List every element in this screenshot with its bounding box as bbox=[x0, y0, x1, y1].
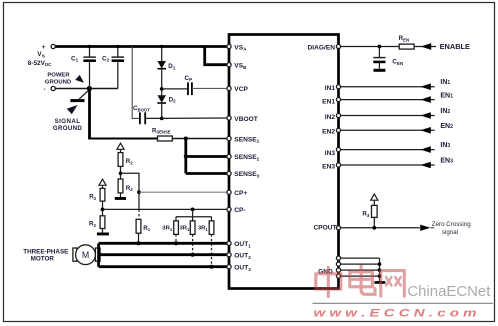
wire OUT3 bbox=[99, 265, 228, 268]
arrow IN2 bbox=[420, 112, 430, 119]
pin CP+ bbox=[227, 190, 231, 194]
svg-text:CP+: CP+ bbox=[234, 190, 247, 197]
wire ground to sense bbox=[88, 89, 91, 139]
svg-text:3R1: 3R1 bbox=[162, 226, 173, 232]
svg-text:M: M bbox=[82, 250, 89, 260]
watermark chinese characters bbox=[316, 266, 405, 296]
svg-text:IN3: IN3 bbox=[325, 150, 336, 157]
svg-text:MOTOR: MOTOR bbox=[31, 256, 55, 263]
pin EN2 bbox=[336, 128, 340, 132]
svg-text:THREE-PHASE: THREE-PHASE bbox=[23, 248, 68, 255]
svg-text:GROUND: GROUND bbox=[53, 125, 83, 132]
arrow IN1 bbox=[420, 83, 430, 90]
resistor R2 left lower bbox=[100, 216, 105, 229]
arrow zero crossing output bbox=[420, 225, 430, 231]
node D1-D2 junction bbox=[160, 87, 164, 91]
svg-text:+: + bbox=[42, 44, 46, 51]
svg-text:IN3: IN3 bbox=[440, 142, 450, 149]
resistor 3R1 a bbox=[174, 221, 179, 235]
svg-text:ChinaECNet: ChinaECNet bbox=[407, 283, 491, 300]
capacitor C2 bbox=[117, 47, 119, 58]
diode D1 bbox=[161, 47, 163, 62]
wire GND bundle bbox=[340, 257, 380, 259]
ground signal-ground bar bbox=[79, 90, 90, 100]
svg-text:EN2: EN2 bbox=[322, 128, 335, 135]
arrow left chain top bbox=[99, 179, 106, 185]
pin OUT3 bbox=[227, 265, 231, 269]
svg-text:CPOUT: CPOUT bbox=[314, 225, 337, 232]
node VS+ terminal bbox=[51, 44, 55, 48]
arrow EN3 bbox=[420, 162, 430, 169]
svg-text:POWER: POWER bbox=[47, 72, 70, 78]
wire CP- bbox=[103, 208, 228, 210]
svg-text:IN2: IN2 bbox=[440, 108, 450, 115]
svg-text:SENSE3: SENSE3 bbox=[234, 171, 259, 178]
pin CPOUT bbox=[336, 226, 340, 230]
wire CP to VCP pin bbox=[192, 87, 228, 89]
svg-text:EN1: EN1 bbox=[440, 92, 453, 99]
svg-text:RSENSE: RSENSE bbox=[152, 129, 171, 135]
svg-text:SENSE2: SENSE2 bbox=[234, 154, 259, 161]
pin VSB bbox=[227, 63, 231, 67]
node power ground junction bbox=[87, 86, 92, 91]
pin IN3 bbox=[336, 148, 340, 152]
wire CPOUT bbox=[340, 227, 420, 229]
pin GND group bbox=[336, 256, 340, 260]
node sense junction bbox=[184, 137, 188, 141]
motor M1 circle bbox=[76, 245, 96, 265]
pin SENSE3 bbox=[227, 171, 231, 175]
node VBOOT junction bbox=[160, 117, 164, 121]
arrow ENABLE input bbox=[421, 43, 432, 50]
watermark divider line bbox=[313, 302, 494, 304]
pin DIAG/EN bbox=[336, 44, 340, 48]
wire IN1 bbox=[340, 86, 435, 88]
resistor RSENSE bbox=[158, 136, 173, 141]
wire IN3 bbox=[340, 149, 435, 151]
resistor R2 lower bbox=[118, 179, 123, 193]
ground CEN bar bbox=[374, 69, 386, 72]
wire OUT2 bbox=[100, 253, 228, 256]
resistor 3R1 c bbox=[209, 221, 214, 235]
resistor 3R1 b bbox=[190, 221, 195, 235]
svg-text:IN2: IN2 bbox=[325, 114, 336, 121]
svg-text:-: - bbox=[44, 86, 46, 93]
svg-text:VBOOT: VBOOT bbox=[234, 116, 257, 123]
capacitor C1 bbox=[89, 47, 91, 58]
resistor R2 left upper bbox=[100, 188, 105, 201]
arrow power ground pointer bbox=[75, 75, 84, 83]
svg-text:3R1: 3R1 bbox=[198, 226, 209, 232]
pin OUT2 bbox=[227, 253, 231, 257]
wire OUT1 bbox=[99, 242, 228, 245]
ground R2 chain bbox=[120, 193, 122, 197]
arrow EN1 bbox=[420, 96, 430, 103]
wire EN3 bbox=[340, 164, 435, 166]
wire IN2 bbox=[340, 115, 435, 117]
pin SENSE2 bbox=[227, 154, 231, 158]
pin VSA bbox=[227, 44, 231, 48]
wire 3R1 dashed drops bbox=[175, 234, 177, 243]
capacitor CEN bbox=[378, 47, 380, 58]
motor brushes bbox=[73, 248, 77, 261]
wire EN1 bbox=[340, 99, 435, 101]
wire CBOOT to VBOOT node bbox=[145, 117, 162, 119]
wire top supply rail bbox=[55, 45, 228, 48]
svg-text:ENABLE: ENABLE bbox=[440, 42, 470, 51]
pin CP- bbox=[227, 207, 231, 211]
svg-text:3R1: 3R1 bbox=[180, 226, 191, 232]
wire bottom supply return bbox=[55, 88, 118, 90]
svg-text:SENSE1: SENSE1 bbox=[234, 136, 259, 143]
arrow signal ground pointer bbox=[67, 105, 78, 114]
node VS- terminal bbox=[51, 86, 55, 90]
wire EN2 bbox=[340, 129, 435, 131]
svg-text:IN1: IN1 bbox=[440, 79, 450, 86]
node CP+ junction bbox=[137, 190, 141, 194]
wire VBOOT bbox=[162, 117, 228, 119]
pin SENSE1 bbox=[227, 136, 231, 140]
pin EN3 bbox=[336, 163, 340, 167]
IC U1 motor-driver body bbox=[229, 35, 339, 289]
svg-text:DIAG/EN: DIAG/EN bbox=[308, 44, 336, 51]
resistor REN bbox=[399, 44, 414, 49]
arrow IN3 bbox=[420, 146, 430, 153]
wire 3R1 header bbox=[192, 209, 194, 216]
wire motor bus bbox=[97, 243, 100, 266]
arrow EN2 bbox=[420, 127, 430, 134]
svg-text:CP-: CP- bbox=[234, 207, 245, 214]
wire RSENSE to SENSE1 bbox=[172, 138, 228, 140]
resistor R1 bbox=[136, 219, 141, 233]
svg-text:EN1: EN1 bbox=[322, 98, 335, 105]
wire left chain bbox=[102, 201, 104, 216]
svg-text:EN3: EN3 bbox=[440, 158, 453, 165]
capacitor CBOOT bbox=[139, 112, 141, 124]
ground GND bar bbox=[374, 281, 385, 284]
pin OUT1 bbox=[227, 241, 231, 245]
ground left chain bbox=[102, 229, 104, 233]
svg-text:Zero Crossing: Zero Crossing bbox=[432, 221, 471, 228]
svg-text:VCP: VCP bbox=[234, 86, 248, 93]
resistor R3 bbox=[372, 205, 378, 217]
arrow R3 top bbox=[371, 194, 378, 200]
wire sense bus to SENSE2 SENSE3 bbox=[184, 139, 187, 174]
capacitor CP bbox=[162, 88, 188, 90]
wire to R1 solid then dashed bbox=[138, 192, 140, 209]
pin VCP bbox=[227, 86, 231, 90]
svg-text:EN3: EN3 bbox=[322, 164, 335, 171]
resistor R2 upper bbox=[118, 153, 123, 167]
svg-text:GROUND: GROUND bbox=[45, 79, 71, 85]
diode D2 bbox=[161, 89, 163, 95]
svg-text:IN1: IN1 bbox=[325, 85, 336, 92]
pin IN2 bbox=[336, 113, 340, 117]
svg-text:w w w . E C C N . c o m: w w w . E C C N . c o m bbox=[314, 308, 477, 320]
svg-text:signal: signal bbox=[442, 229, 458, 236]
wire DIAG/EN bbox=[340, 46, 437, 48]
svg-text:EN2: EN2 bbox=[440, 123, 453, 130]
wire VSB branch bbox=[205, 47, 228, 65]
pin EN1 bbox=[336, 98, 340, 102]
wire CP+ bbox=[139, 191, 228, 193]
arrow R2 chain top bbox=[117, 143, 124, 149]
pin IN1 bbox=[336, 85, 340, 89]
pin VBOOT bbox=[227, 116, 231, 120]
wire CBOOT riser from rail bbox=[132, 47, 140, 119]
wire R2 junction bbox=[120, 166, 122, 179]
